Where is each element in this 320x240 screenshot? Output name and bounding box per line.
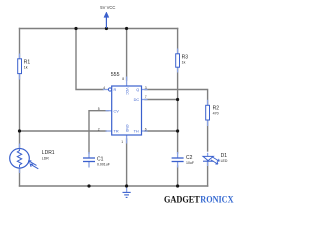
svg-text:10uF: 10uF — [186, 161, 194, 165]
svg-text:GADGET: GADGET — [164, 195, 200, 205]
svg-text:Q: Q — [136, 88, 139, 92]
svg-text:5: 5 — [98, 107, 100, 111]
svg-text:1k: 1k — [24, 66, 28, 70]
svg-text:470: 470 — [213, 112, 219, 116]
svg-text:1k: 1k — [182, 61, 186, 65]
svg-text:C1: C1 — [97, 156, 104, 162]
svg-text:4: 4 — [103, 86, 105, 90]
svg-text:555: 555 — [111, 72, 120, 78]
svg-text:5V VCC: 5V VCC — [100, 5, 115, 10]
svg-text:0.001uF: 0.001uF — [97, 163, 110, 167]
svg-text:TH: TH — [134, 130, 139, 134]
svg-text:TR: TR — [114, 130, 119, 134]
svg-text:6: 6 — [145, 127, 147, 131]
svg-text:GND: GND — [125, 125, 129, 133]
svg-text:LED: LED — [221, 159, 228, 163]
svg-text:8: 8 — [122, 77, 124, 81]
svg-text:R: R — [114, 88, 117, 92]
svg-text:7: 7 — [145, 95, 147, 99]
svg-text:3: 3 — [145, 86, 147, 90]
svg-text:DC: DC — [134, 98, 140, 102]
svg-text:CV: CV — [114, 109, 120, 113]
svg-text:RONICX: RONICX — [200, 195, 234, 205]
svg-text:LDR1: LDR1 — [42, 150, 55, 156]
svg-text:R3: R3 — [182, 54, 189, 60]
svg-text:2: 2 — [98, 127, 100, 131]
svg-text:LDR: LDR — [42, 156, 49, 160]
svg-text:VCC: VCC — [125, 88, 129, 96]
svg-text:1: 1 — [121, 140, 123, 144]
